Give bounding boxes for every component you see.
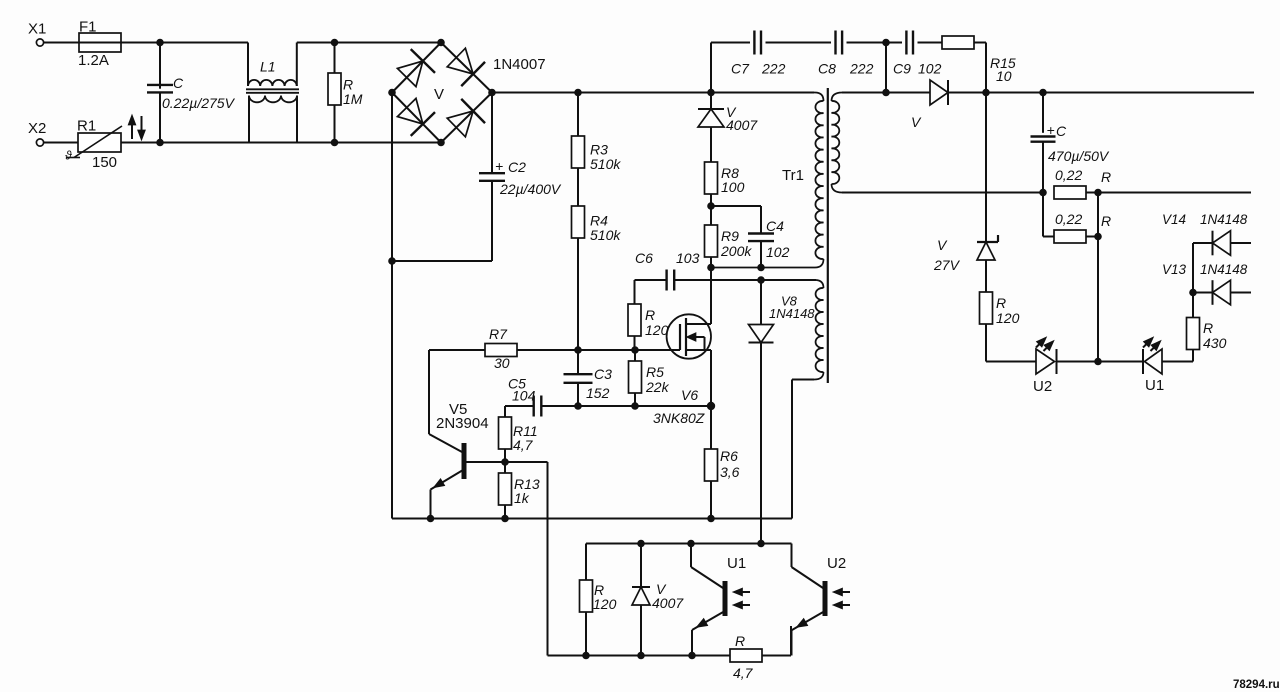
svg-text:1N4148: 1N4148	[1200, 262, 1248, 277]
svg-text:U1: U1	[727, 555, 746, 572]
svg-text:C8: C8	[818, 61, 836, 77]
svg-text:102: 102	[918, 61, 942, 77]
svg-text:222: 222	[849, 61, 874, 77]
svg-text:X1: X1	[28, 21, 46, 38]
svg-text:0.22µ/275V: 0.22µ/275V	[162, 95, 236, 111]
svg-text:U2: U2	[1033, 378, 1052, 395]
svg-text:4007: 4007	[726, 117, 758, 133]
svg-text:Tr1: Tr1	[782, 167, 804, 184]
svg-text:104: 104	[512, 388, 536, 404]
svg-text:4,7: 4,7	[513, 437, 534, 453]
svg-text:C4: C4	[766, 218, 784, 234]
svg-text:22k: 22k	[645, 379, 670, 395]
svg-text:V6: V6	[681, 387, 698, 403]
svg-text:R: R	[1101, 213, 1111, 229]
svg-text:R5: R5	[646, 364, 664, 380]
svg-text:V13: V13	[1162, 262, 1187, 277]
svg-text:1N4148: 1N4148	[769, 306, 815, 321]
svg-text:510k: 510k	[590, 156, 621, 172]
svg-text:L1: L1	[260, 59, 276, 75]
svg-text:150: 150	[92, 154, 117, 171]
svg-text:430: 430	[1203, 335, 1227, 351]
svg-text:1.2A: 1.2A	[78, 52, 109, 69]
svg-text:0,22: 0,22	[1055, 167, 1082, 183]
svg-text:0,22: 0,22	[1055, 211, 1082, 227]
svg-text:120: 120	[593, 596, 617, 612]
svg-text:R1: R1	[77, 118, 96, 135]
svg-text:C7: C7	[731, 61, 750, 77]
svg-text:R: R	[1101, 169, 1111, 185]
svg-text:120: 120	[645, 322, 669, 338]
svg-text:R: R	[1203, 320, 1213, 336]
svg-text:1N4148: 1N4148	[1200, 212, 1248, 227]
svg-text:R9: R9	[721, 228, 739, 244]
svg-text:152: 152	[586, 385, 610, 401]
svg-text:+: +	[495, 158, 503, 174]
svg-text:ϑ: ϑ	[65, 149, 72, 163]
svg-text:U1: U1	[1145, 377, 1164, 394]
svg-text:22µ/400V: 22µ/400V	[499, 181, 562, 197]
svg-text:3,6: 3,6	[720, 464, 740, 480]
svg-text:103: 103	[676, 250, 700, 266]
svg-text:222: 222	[761, 61, 786, 77]
svg-text:100: 100	[721, 179, 745, 195]
svg-text:1N4007: 1N4007	[493, 56, 546, 73]
svg-text:X2: X2	[28, 120, 46, 137]
svg-text:27V: 27V	[933, 257, 961, 273]
svg-text:R6: R6	[720, 448, 738, 464]
svg-text:R7: R7	[489, 326, 508, 342]
svg-text:F1: F1	[79, 19, 97, 36]
svg-text:200k: 200k	[720, 243, 752, 259]
svg-text:+: +	[1047, 122, 1055, 138]
svg-text:V: V	[434, 86, 444, 103]
svg-text:4007: 4007	[652, 595, 684, 611]
svg-text:R: R	[645, 307, 655, 323]
svg-text:510k: 510k	[590, 227, 621, 243]
svg-text:3NK80Z: 3NK80Z	[653, 410, 705, 426]
svg-text:C2: C2	[508, 159, 526, 175]
svg-text:C: C	[1056, 123, 1067, 139]
svg-text:1k: 1k	[514, 490, 530, 506]
svg-text:C3: C3	[594, 366, 612, 382]
svg-text:R: R	[996, 295, 1006, 311]
svg-text:120: 120	[996, 310, 1020, 326]
svg-text:78294.ru: 78294.ru	[1233, 679, 1280, 691]
svg-text:C9: C9	[893, 61, 911, 77]
svg-text:R: R	[735, 633, 745, 649]
svg-text:U2: U2	[827, 555, 846, 572]
svg-text:10: 10	[996, 68, 1012, 84]
svg-text:1M: 1M	[343, 91, 363, 107]
svg-text:C: C	[173, 75, 184, 91]
svg-text:470µ/50V: 470µ/50V	[1048, 148, 1110, 164]
svg-text:C6: C6	[635, 250, 653, 266]
svg-text:2N3904: 2N3904	[436, 415, 489, 432]
svg-text:30: 30	[494, 355, 510, 371]
svg-text:V14: V14	[1162, 212, 1186, 227]
svg-text:4,7: 4,7	[733, 665, 754, 681]
svg-text:102: 102	[766, 244, 790, 260]
